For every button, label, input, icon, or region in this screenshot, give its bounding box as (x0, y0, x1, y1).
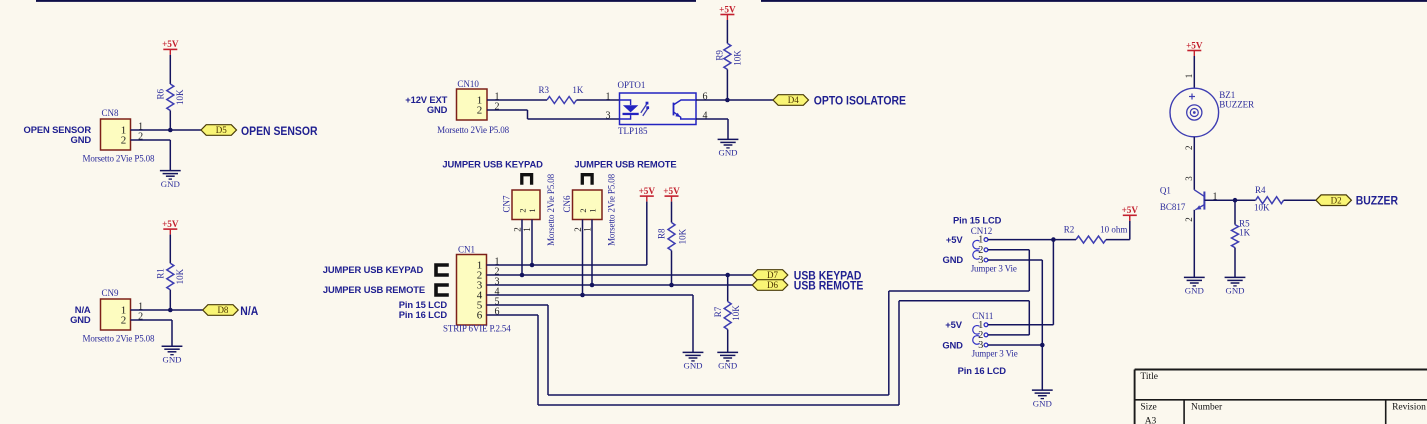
svg-text:STRIP 6VIE P.2.54: STRIP 6VIE P.2.54 (443, 324, 511, 334)
svg-text:R4: R4 (1255, 185, 1266, 195)
svg-text:Morsetto 2Vie P5.08: Morsetto 2Vie P5.08 (83, 333, 156, 343)
svg-text:Morsetto 2Vie P5.08: Morsetto 2Vie P5.08 (606, 173, 616, 246)
svg-text:CN7: CN7 (501, 195, 511, 213)
svg-text:2: 2 (1184, 146, 1194, 151)
svg-text:BZ1: BZ1 (1219, 90, 1235, 100)
svg-text:2: 2 (138, 132, 143, 143)
svg-text:Revision: Revision (1392, 402, 1426, 412)
svg-text:Morsetto 2Vie P5.08: Morsetto 2Vie P5.08 (83, 153, 156, 163)
svg-text:1: 1 (522, 227, 532, 232)
svg-text:4: 4 (703, 111, 708, 122)
svg-text:Pin 15 LCD: Pin 15 LCD (953, 214, 1002, 225)
svg-text:JUMPER USB REMOTE: JUMPER USB REMOTE (574, 159, 676, 170)
svg-text:JUMPER USB KEYPAD: JUMPER USB KEYPAD (323, 264, 424, 275)
svg-text:10K: 10K (175, 89, 185, 105)
svg-text:GND: GND (943, 254, 964, 265)
svg-text:+5V: +5V (945, 319, 962, 330)
svg-text:2: 2 (121, 135, 127, 147)
svg-text:Q1: Q1 (1160, 186, 1171, 196)
svg-text:Jumper 3 Vie: Jumper 3 Vie (971, 263, 1017, 273)
svg-text:2: 2 (513, 227, 523, 232)
svg-text:OPEN SENSOR: OPEN SENSOR (241, 125, 317, 138)
svg-text:R7: R7 (713, 306, 723, 317)
svg-text:10K: 10K (1254, 203, 1270, 213)
svg-text:GND: GND (718, 361, 737, 371)
svg-text:GND: GND (1185, 286, 1204, 296)
svg-text:1: 1 (606, 92, 611, 103)
svg-text:2: 2 (517, 208, 527, 212)
svg-text:10K: 10K (733, 50, 743, 66)
svg-text:GND: GND (161, 179, 180, 189)
svg-text:JUMPER USB REMOTE: JUMPER USB REMOTE (323, 284, 425, 295)
svg-text:Number: Number (1191, 402, 1223, 412)
svg-text:GND: GND (71, 134, 92, 145)
svg-text:R9: R9 (715, 50, 725, 61)
svg-text:CN1: CN1 (458, 244, 475, 254)
svg-text:D8: D8 (217, 305, 228, 315)
svg-text:R1: R1 (156, 268, 166, 279)
svg-text:1K: 1K (572, 85, 584, 95)
svg-text:3: 3 (1184, 176, 1194, 181)
svg-text:GND: GND (162, 354, 181, 364)
svg-text:N/A: N/A (240, 305, 258, 318)
svg-text:+5V: +5V (1186, 40, 1203, 50)
svg-text:+5V: +5V (162, 39, 179, 49)
svg-text:Morsetto 2Vie P5.08: Morsetto 2Vie P5.08 (546, 173, 556, 246)
svg-text:1: 1 (1184, 74, 1194, 79)
svg-text:2: 2 (138, 312, 143, 323)
svg-text:+5V: +5V (946, 234, 963, 245)
svg-text:TLP185: TLP185 (618, 126, 648, 136)
svg-text:BUZZER: BUZZER (1219, 100, 1254, 110)
svg-text:10K: 10K (678, 228, 688, 244)
svg-text:2: 2 (121, 315, 127, 327)
svg-text:Title: Title (1140, 372, 1158, 382)
svg-text:R3: R3 (539, 85, 550, 95)
svg-text:BUZZER: BUZZER (1356, 195, 1398, 208)
svg-text:D4: D4 (788, 95, 799, 105)
svg-text:D6: D6 (767, 280, 778, 290)
svg-text:6: 6 (703, 92, 708, 103)
svg-text:D5: D5 (216, 125, 227, 135)
svg-text:CN8: CN8 (102, 108, 120, 118)
svg-text:USB REMOTE: USB REMOTE (794, 280, 864, 293)
svg-text:CN9: CN9 (102, 288, 120, 298)
svg-text:GND: GND (718, 148, 737, 158)
svg-text:OPTO1: OPTO1 (618, 80, 646, 90)
svg-text:+5V: +5V (719, 4, 736, 14)
svg-text:Pin 16 LCD: Pin 16 LCD (399, 309, 448, 320)
svg-text:D2: D2 (1331, 195, 1342, 205)
svg-text:GND: GND (942, 339, 963, 350)
svg-text:+5V: +5V (162, 219, 179, 229)
svg-text:1K: 1K (1239, 228, 1251, 238)
svg-text:D7: D7 (767, 270, 778, 280)
svg-text:+5V: +5V (663, 186, 680, 196)
svg-text:+5V: +5V (639, 186, 656, 196)
svg-text:3: 3 (606, 111, 611, 122)
svg-text:GND: GND (70, 314, 91, 325)
svg-text:A3: A3 (1145, 416, 1157, 424)
svg-text:OPTO ISOLATORE: OPTO ISOLATORE (814, 95, 907, 108)
svg-text:GND: GND (683, 361, 702, 371)
svg-text:JUMPER USB KEYPAD: JUMPER USB KEYPAD (442, 159, 543, 170)
svg-text:10K: 10K (731, 305, 741, 321)
svg-text:BC817: BC817 (1160, 202, 1186, 212)
svg-text:2: 2 (578, 208, 588, 212)
svg-text:2: 2 (1184, 217, 1194, 222)
svg-text:1: 1 (587, 208, 597, 212)
svg-text:R2: R2 (1064, 225, 1075, 235)
svg-text:6: 6 (495, 307, 500, 318)
svg-text:Size: Size (1140, 402, 1156, 412)
svg-text:GND: GND (1033, 398, 1052, 408)
svg-text:6: 6 (477, 310, 483, 322)
svg-text:R8: R8 (657, 228, 667, 239)
svg-text:GND: GND (427, 104, 448, 115)
svg-text:Morsetto 2Vie P5.08: Morsetto 2Vie P5.08 (437, 125, 510, 135)
svg-text:1: 1 (527, 208, 537, 212)
svg-text:Pin 16 LCD: Pin 16 LCD (958, 365, 1007, 376)
svg-text:1: 1 (583, 227, 593, 232)
svg-text:Jumper 3 Vie: Jumper 3 Vie (972, 348, 1018, 358)
svg-text:CN6: CN6 (562, 195, 572, 213)
svg-text:1: 1 (1213, 191, 1218, 202)
svg-text:2: 2 (495, 102, 500, 113)
svg-text:GND: GND (1225, 286, 1244, 296)
svg-text:CN10: CN10 (457, 79, 479, 89)
svg-text:R6: R6 (156, 88, 166, 99)
svg-text:10 ohm: 10 ohm (1100, 225, 1127, 235)
svg-text:+5V: +5V (1122, 205, 1139, 215)
svg-text:10K: 10K (175, 268, 185, 284)
svg-text:2: 2 (477, 105, 483, 117)
svg-text:2: 2 (573, 227, 583, 232)
